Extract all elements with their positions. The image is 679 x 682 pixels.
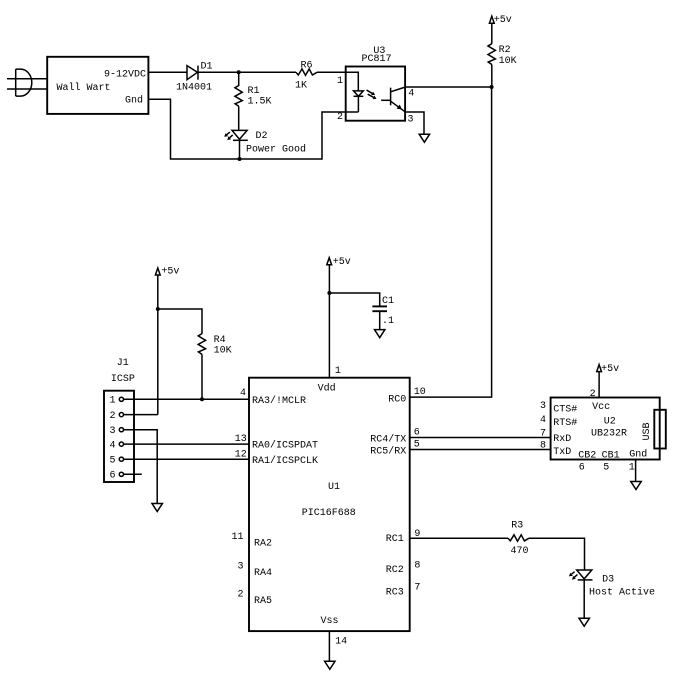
svg-text:R3: R3 <box>511 521 523 532</box>
svg-text:RC0: RC0 <box>388 395 406 406</box>
svg-text:PC817: PC817 <box>362 54 392 65</box>
wire: +5v to U2 Vcc pin 2 <box>598 371 600 397</box>
svg-text:+5v: +5v <box>333 257 351 268</box>
wire: D1 to R6 <box>198 71 296 73</box>
svg-text:5: 5 <box>110 456 116 467</box>
wire: R2 to node <box>491 65 493 88</box>
svg-text:2: 2 <box>237 589 243 600</box>
resistor R1 1.5K <box>235 72 272 107</box>
svg-text:7: 7 <box>540 429 546 440</box>
svg-text:1.5K: 1.5K <box>248 97 272 108</box>
wire: RC5/RX to U2 TxD <box>410 449 551 451</box>
svg-text:RA2: RA2 <box>254 539 272 550</box>
ground: U2 Gnd <box>631 482 641 490</box>
svg-text:5: 5 <box>603 462 609 473</box>
U1 pin 3 RA4 <box>237 562 272 580</box>
svg-text:Vss: Vss <box>321 616 339 627</box>
svg-text:U1: U1 <box>328 482 340 493</box>
svg-text:D1: D1 <box>201 61 213 72</box>
wire: R6 to optocoupler pin 1 <box>317 72 358 91</box>
junction node: D1/R1/R6 <box>237 70 241 74</box>
ground: Vss <box>325 661 335 669</box>
svg-text:3: 3 <box>237 562 243 573</box>
svg-text:3: 3 <box>408 114 414 125</box>
USB module U2 UB232R <box>551 398 660 462</box>
junction node: D2 on ground rail <box>238 157 242 161</box>
junction node: Vdd / C1 branch <box>327 291 331 295</box>
svg-text:+5v: +5v <box>494 15 512 26</box>
wire: C1 to ground <box>379 311 381 329</box>
svg-text:RA3/!MCLR: RA3/!MCLR <box>252 395 306 407</box>
resistor R6 1K <box>295 61 317 92</box>
wire: node to R4 top <box>158 309 202 334</box>
svg-text:CB2: CB2 <box>578 450 596 461</box>
svg-text:R2: R2 <box>499 45 511 56</box>
J1 pin 5 <box>110 456 124 467</box>
svg-text:+5v: +5v <box>601 364 619 375</box>
svg-text:Gnd: Gnd <box>125 94 143 106</box>
microcontroller U1 PIC16F688 <box>249 378 410 631</box>
svg-text:RA0/ICSPDAT: RA0/ICSPDAT <box>252 440 318 452</box>
svg-text:Wall Wart: Wall Wart <box>57 82 111 94</box>
svg-text:C1: C1 <box>382 296 394 307</box>
U1 pin 9 RC1 <box>386 529 421 545</box>
svg-text:ICSP: ICSP <box>111 374 135 385</box>
svg-text:1N4001: 1N4001 <box>176 83 212 94</box>
svg-text:3: 3 <box>540 401 546 412</box>
+5v supply at R2 <box>489 15 511 26</box>
svg-text:10K: 10K <box>214 345 232 356</box>
ground: C1 <box>375 330 385 338</box>
wire: J1 pin 3 to ground <box>124 430 158 504</box>
J1 pin 3 <box>110 426 124 437</box>
AC plug P1 <box>7 69 47 96</box>
wire: R4 bottom to RA3 net <box>201 354 203 399</box>
wire: J1 pin 6 stub <box>124 473 142 475</box>
svg-text:Host Active: Host Active <box>589 587 655 599</box>
wire: U3 pin 4 to R2 node <box>405 86 492 88</box>
U1 pin 11 RA2 <box>231 532 272 550</box>
resistor R3 470 <box>508 521 529 558</box>
wire: wall wart 9-12VDC output to D1 <box>148 71 187 73</box>
U1 pin 2 RA5 <box>237 589 272 607</box>
wire: R1 to D2 <box>238 106 240 130</box>
svg-text:PIC16F688: PIC16F688 <box>302 508 356 519</box>
svg-text:9-12VDC: 9-12VDC <box>104 69 146 80</box>
svg-text:Vdd: Vdd <box>318 383 336 395</box>
U1 pin 7 RC3 <box>386 582 421 598</box>
svg-text:4: 4 <box>408 88 414 99</box>
svg-text:6: 6 <box>110 471 116 482</box>
junction node: R4 on RA3 wire <box>200 397 204 401</box>
svg-text:6: 6 <box>414 427 420 438</box>
svg-text:RC4/TX: RC4/TX <box>370 433 406 445</box>
U1 pin 5 RC5/RX <box>370 439 419 457</box>
LED D3 Host Active <box>569 570 655 599</box>
wire: +5v to R2 <box>491 23 493 44</box>
svg-text:USB: USB <box>642 422 653 440</box>
svg-text:1: 1 <box>110 396 116 407</box>
svg-text:13: 13 <box>235 434 247 445</box>
junction node: +5v / R4 branch <box>156 307 160 311</box>
svg-text:10: 10 <box>414 387 426 398</box>
svg-text:Power Good: Power Good <box>246 144 306 156</box>
wire: J1 pin 4 to PIC RA0/ICSPDAT <box>124 443 250 445</box>
wall wart power supply <box>47 57 148 114</box>
optocoupler U3 PC817 <box>337 46 414 125</box>
svg-text:3: 3 <box>110 426 116 437</box>
wire: J1 pin 5 to PIC RA1/ICSPCLK <box>124 458 250 460</box>
svg-text:TxD: TxD <box>553 447 571 458</box>
U1 pin 6 RC4/TX <box>370 427 419 445</box>
wire: wall wart Gnd rail to optocoupler pin 2 <box>148 99 345 159</box>
J1 pin 6 <box>110 471 124 482</box>
+5v supply at Vdd <box>327 257 351 268</box>
svg-text:CTS#: CTS# <box>553 404 577 415</box>
U1 pin 8 RC2 <box>386 560 421 576</box>
svg-text:4: 4 <box>540 415 546 426</box>
svg-text:RA1/ICSPCLK: RA1/ICSPCLK <box>252 455 318 467</box>
wire: node to C1 <box>329 293 379 306</box>
svg-text:RA5: RA5 <box>254 596 272 607</box>
wire: D2 cathode to ground rail <box>239 140 241 159</box>
svg-text:2: 2 <box>337 112 343 123</box>
svg-text:10K: 10K <box>499 56 517 67</box>
svg-text:D2: D2 <box>256 131 268 142</box>
J1 pin 1 <box>110 396 124 407</box>
ground: J1 pin 3 <box>152 504 162 512</box>
svg-text:RC2: RC2 <box>386 565 404 576</box>
svg-text:D3: D3 <box>602 574 614 585</box>
svg-text:RC3: RC3 <box>386 588 404 599</box>
svg-text:11: 11 <box>231 532 243 543</box>
wire: RC4/TX to U2 RxD <box>410 437 551 439</box>
wire: +5v down to J1 pin 2 <box>157 275 159 415</box>
svg-text:2: 2 <box>110 411 116 422</box>
junction node: R2 / U3 pin 4 / RC0 <box>490 85 494 89</box>
diode D1 1N4001 <box>176 61 213 93</box>
svg-text:4: 4 <box>240 388 246 399</box>
J1 pin 2 <box>110 411 124 422</box>
ground: U3 pin 3 <box>419 134 429 142</box>
svg-text:8: 8 <box>414 560 420 571</box>
LED D2 Power Good <box>224 130 306 155</box>
U3 internal phototransistor <box>381 87 405 112</box>
svg-text:RTS#: RTS# <box>553 418 577 429</box>
U1 pin 4 RA3/!MCLR <box>240 388 306 407</box>
wire: J1 pin 1 to PIC RA3 <box>124 398 250 400</box>
wire: RC1 to R3 <box>410 537 508 539</box>
svg-text:7: 7 <box>414 582 420 593</box>
U1 pin 12 RA1/ICSPCLK <box>235 450 318 467</box>
svg-text:470: 470 <box>511 546 529 557</box>
svg-text:2: 2 <box>590 389 596 400</box>
wire: +5v down to PIC Vdd pin 1 <box>328 265 330 378</box>
U1 pin 10 RC0 <box>388 387 425 406</box>
svg-text:Vcc: Vcc <box>592 402 610 413</box>
connector J1 ICSP <box>104 358 135 482</box>
svg-text:RA4: RA4 <box>254 568 272 579</box>
svg-text:6: 6 <box>579 462 585 473</box>
U2 USB connector <box>642 410 666 449</box>
svg-text:14: 14 <box>335 636 347 647</box>
wire: Vss to ground <box>328 631 330 661</box>
J1 pin 4 <box>110 441 124 452</box>
svg-text:+5v: +5v <box>161 266 179 277</box>
svg-text:12: 12 <box>235 450 247 461</box>
svg-text:J1: J1 <box>117 358 129 369</box>
wire: J1 pin 2 to +5v <box>124 414 158 416</box>
svg-text:4: 4 <box>110 441 116 452</box>
+5v supply at U2 Vcc <box>597 364 619 375</box>
svg-text:Gnd: Gnd <box>629 449 647 461</box>
svg-text:.1: .1 <box>382 316 394 327</box>
U3 internal LED <box>346 90 377 112</box>
+5v supply at J1 <box>155 266 179 277</box>
svg-text:CB1: CB1 <box>602 450 620 461</box>
svg-text:U2: U2 <box>604 416 616 427</box>
resistor R2 10K <box>488 44 517 67</box>
capacitor C1 .1 <box>372 296 394 327</box>
svg-text:1: 1 <box>629 462 635 473</box>
svg-text:RxD: RxD <box>553 434 571 445</box>
U1 pin 13 RA0/ICSPDAT <box>235 434 318 452</box>
svg-text:UB232R: UB232R <box>591 429 627 440</box>
svg-text:1: 1 <box>337 76 343 87</box>
svg-text:RC1: RC1 <box>386 534 404 545</box>
wire: U2 pin 1 Gnd to ground <box>635 460 637 482</box>
svg-text:RC5/RX: RC5/RX <box>370 446 406 458</box>
wire: U3 pin 3 to ground <box>405 112 424 134</box>
wire: node down to RC0 <box>410 87 492 397</box>
svg-text:R1: R1 <box>248 86 260 97</box>
svg-text:1K: 1K <box>295 80 307 91</box>
ground: D3 <box>579 618 589 626</box>
wire: R3 to D3 <box>529 538 585 570</box>
svg-text:8: 8 <box>540 441 546 452</box>
resistor R4 10K <box>198 334 231 357</box>
svg-text:1: 1 <box>335 366 341 377</box>
svg-text:R6: R6 <box>301 61 313 72</box>
wire: D3 cathode to ground <box>583 580 585 618</box>
